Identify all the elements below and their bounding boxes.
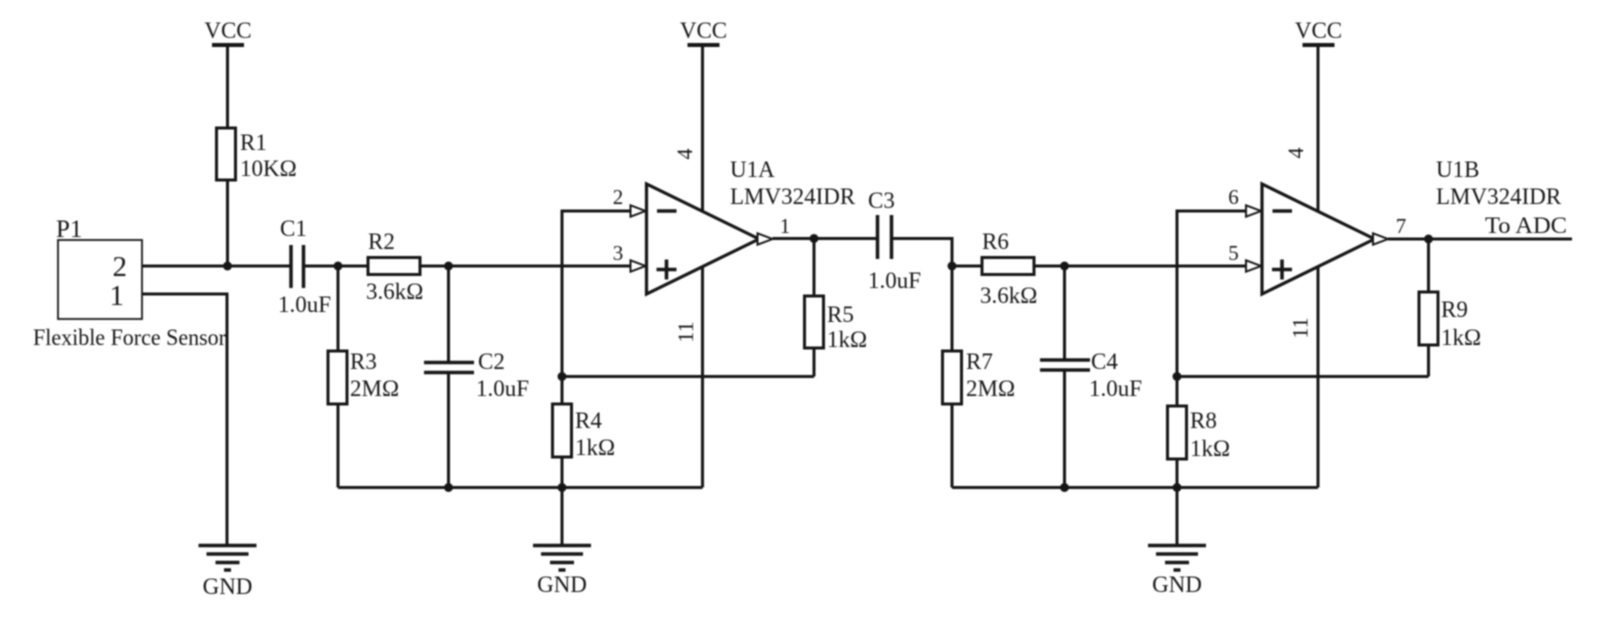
resistor R7 2MΩ	[943, 349, 1016, 404]
node G junction (R6 / C4 / U1B+)	[1060, 262, 1069, 271]
wire R5 bottom to feedback line	[813, 348, 816, 377]
wire U1A pin2 from feedback node	[562, 211, 631, 377]
svg-text:LMV324IDR: LMV324IDR	[730, 184, 856, 209]
svg-text:VCC: VCC	[1295, 18, 1342, 43]
wire U1A output to C3	[773, 237, 877, 240]
output pin 7 arrow	[1373, 233, 1388, 244]
svg-text:10KΩ: 10KΩ	[240, 156, 297, 181]
svg-text:2MΩ: 2MΩ	[966, 376, 1015, 401]
wire U1B pin6 from feedback node	[1177, 211, 1246, 377]
capacitor C3 1.0uF	[868, 188, 921, 293]
svg-text:C2: C2	[478, 349, 505, 374]
svg-text:C3: C3	[868, 188, 895, 213]
wire R1 bottom to input node	[226, 180, 229, 266]
ground GND (P1 return)	[199, 546, 257, 600]
wire C4 bottom to rail	[1063, 370, 1066, 488]
node F junction (C3 / R6 / R7)	[948, 262, 957, 271]
power symbol VCC (U1A pin 4)	[680, 18, 727, 45]
ground rail stage 1	[338, 486, 703, 489]
junction C4/rail	[1060, 483, 1069, 492]
svg-text:U1B: U1B	[1436, 157, 1479, 182]
junction C2/rail	[444, 483, 453, 492]
svg-text:To ADC: To ADC	[1485, 213, 1567, 238]
feedback wire node D to R5 bottom	[562, 375, 814, 378]
svg-text:LMV324IDR: LMV324IDR	[1436, 184, 1562, 209]
svg-text:11: 11	[1288, 317, 1313, 338]
svg-text:1kΩ: 1kΩ	[1190, 436, 1230, 461]
svg-text:2MΩ: 2MΩ	[350, 376, 399, 401]
svg-text:R8: R8	[1190, 408, 1217, 433]
svg-text:R7: R7	[966, 349, 993, 374]
capacitor C4 1.0uF	[1040, 349, 1142, 401]
svg-text:3.6kΩ: 3.6kΩ	[980, 283, 1037, 308]
svg-text:VCC: VCC	[680, 18, 727, 43]
svg-text:R9: R9	[1441, 297, 1468, 322]
svg-text:1kΩ: 1kΩ	[827, 327, 867, 352]
pin 5 arrow	[1246, 260, 1261, 271]
svg-text:R5: R5	[827, 302, 854, 327]
svg-text:U1A: U1A	[730, 157, 775, 182]
ground GND (stage 1)	[533, 546, 591, 598]
svg-text:P1: P1	[56, 216, 82, 243]
svg-text:1: 1	[780, 214, 791, 238]
wire C3 to stage-2 input node (jog down)	[892, 239, 953, 267]
wire GND stub stage 2	[1176, 488, 1179, 546]
junction R8/GND stub on rail	[1173, 483, 1182, 492]
svg-text:Flexible Force Sensor: Flexible Force Sensor	[33, 325, 226, 350]
svg-text:R6: R6	[982, 229, 1009, 254]
svg-text:1.0uF: 1.0uF	[476, 376, 529, 401]
wire R2 to node C	[420, 265, 631, 268]
svg-text:1.0uF: 1.0uF	[868, 268, 921, 293]
feedback wire node H to R9 bottom	[1177, 375, 1429, 378]
wire P1 pin 2 to node A	[142, 265, 290, 268]
resistor R4 1kΩ	[553, 377, 616, 461]
svg-text:1kΩ: 1kΩ	[575, 435, 615, 460]
wire node B down to R3	[337, 266, 340, 351]
svg-text:4: 4	[672, 149, 697, 160]
pin 2 arrow	[631, 205, 646, 216]
wire node C down to C2	[447, 266, 450, 361]
capacitor C2 1.0uF	[424, 349, 529, 401]
svg-text:1kΩ: 1kΩ	[1441, 325, 1481, 350]
wire R8 bottom to rail	[1176, 459, 1179, 488]
node A junction (R1 / P1.2 / C1)	[223, 262, 232, 271]
svg-text:R3: R3	[350, 349, 377, 374]
svg-text:3: 3	[613, 241, 624, 265]
svg-text:VCC: VCC	[204, 18, 251, 43]
svg-text:GND: GND	[1152, 572, 1202, 597]
resistor R5 1kΩ	[805, 239, 868, 353]
svg-text:C1: C1	[280, 216, 307, 241]
wire C2 bottom to rail	[447, 373, 450, 488]
ground rail stage 2	[952, 486, 1318, 489]
svg-text:2: 2	[613, 185, 624, 209]
wire U1B pin 4	[1317, 45, 1320, 212]
wire node G down to C4	[1063, 266, 1066, 359]
node H junction (pin6 / R8 / R9 feedback)	[1173, 372, 1182, 381]
power symbol VCC (net VCC, stage 1 pull-up)	[204, 18, 251, 128]
node C junction (R2 / C2 / U1A+)	[444, 262, 453, 271]
minus sign	[657, 209, 677, 213]
wire R9 bottom to feedback line	[1427, 345, 1430, 377]
svg-text:1: 1	[110, 280, 125, 312]
svg-text:6: 6	[1228, 185, 1239, 209]
wire P1 pin 1 down to ground	[142, 294, 227, 545]
capacitor C1 1.0uF	[278, 216, 331, 317]
svg-text:7: 7	[1396, 214, 1407, 238]
svg-text:R2: R2	[368, 229, 395, 254]
svg-text:3.6kΩ: 3.6kΩ	[366, 279, 423, 304]
svg-text:2: 2	[113, 251, 128, 283]
junction R4/GND stub on rail	[558, 483, 567, 492]
resistor R8 1kΩ	[1168, 377, 1231, 462]
wire R3 bottom to rail	[337, 404, 340, 488]
node E junction (out1 / R5 / C3)	[810, 234, 819, 243]
node I junction (out7 / R9 / To ADC)	[1424, 235, 1433, 244]
wire node F down to R7	[951, 266, 954, 351]
svg-text:C4: C4	[1091, 349, 1118, 374]
svg-text:1.0uF: 1.0uF	[1089, 376, 1142, 401]
plus sign	[1272, 268, 1292, 272]
op-amp U1B LMV324IDR	[1228, 157, 1562, 294]
svg-text:GND: GND	[537, 572, 587, 597]
resistor R3 2MΩ	[328, 349, 399, 404]
connector P1	[33, 216, 226, 350]
wire R7 bottom to rail	[951, 404, 954, 488]
resistor R1 10KΩ	[217, 128, 297, 181]
op-amp U1A LMV324IDR	[613, 157, 856, 294]
pin 3 arrow	[631, 260, 646, 271]
svg-text:R4: R4	[575, 408, 602, 433]
pin 6 arrow	[1246, 205, 1261, 216]
svg-text:5: 5	[1228, 241, 1239, 265]
wire U1B pin 11	[1317, 267, 1320, 488]
wire GND stub stage 1	[561, 488, 564, 546]
wire R6 to node G	[1034, 265, 1246, 268]
resistor R2 3.6kΩ	[366, 229, 423, 304]
svg-text:GND: GND	[203, 574, 253, 599]
minus sign	[1273, 209, 1293, 213]
resistor R9 1kΩ	[1419, 239, 1481, 350]
wire C1 to node B	[304, 265, 369, 268]
svg-text:11: 11	[673, 321, 698, 342]
plus sign	[657, 268, 677, 272]
node B junction (C1 / R2 / R3)	[334, 262, 343, 271]
wire R4 bottom to rail	[561, 457, 564, 488]
node D junction (pin2 / R4 / R5 feedback)	[558, 372, 567, 381]
wire U1A pin 4	[701, 45, 704, 212]
svg-text:R1: R1	[240, 130, 267, 155]
output pin 1 arrow	[758, 233, 773, 244]
ground GND (stage 2)	[1148, 546, 1206, 598]
power symbol VCC (U1B pin 4)	[1295, 18, 1342, 45]
resistor R6 3.6kΩ	[952, 229, 1037, 308]
svg-text:1.0uF: 1.0uF	[278, 292, 331, 317]
wire U1B output to ADC	[1388, 238, 1572, 241]
svg-text:4: 4	[1283, 148, 1308, 159]
wire U1A pin 11	[701, 267, 704, 488]
